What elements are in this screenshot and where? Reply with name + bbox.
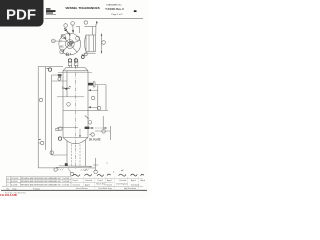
svg-text:VESSEL TOLERANCES: VESSEL TOLERANCES bbox=[65, 6, 99, 10]
leader base C bbox=[68, 168, 71, 173]
leader T2 down bbox=[72, 25, 74, 31]
top nozzle ring R bbox=[74, 59, 77, 62]
skirt left bbox=[66, 141, 68, 166]
head arc left bbox=[85, 35, 87, 52]
platform line bbox=[57, 126, 78, 128]
arrow shell y90 bbox=[88, 89, 91, 91]
balloon low 1 bbox=[41, 141, 44, 144]
svg-text:REVISED AND REISSUED AS STANDA: REVISED AND REISSUED AS STANDARD NO. T-5… bbox=[21, 177, 69, 180]
skirt right bbox=[85, 140, 87, 167]
tick low 1 bbox=[38, 142, 40, 144]
balloon left of bottom head bbox=[58, 137, 61, 140]
bottom tangent bbox=[63, 136, 88, 138]
dim arrow to bottom head bbox=[79, 129, 81, 137]
v-dim x106 bbox=[105, 85, 107, 111]
right nozzle leader bbox=[95, 84, 106, 86]
right L-leader horizontal bbox=[95, 130, 110, 132]
balloon above head L bbox=[66, 53, 69, 56]
svg-text:6-12-86: 6-12-86 bbox=[11, 184, 18, 186]
left dim v3 bbox=[51, 75, 53, 155]
leader to plate balloon bbox=[89, 133, 91, 135]
svg-text:T-5/1001 Rev. 6: T-5/1001 Rev. 6 bbox=[105, 7, 124, 11]
right nozzle stub bbox=[88, 83, 93, 86]
arrowhead NW spoke bbox=[64, 37, 66, 40]
balloon inside vessel bbox=[67, 103, 71, 107]
svg-text:Chief Engineer: Chief Engineer bbox=[116, 183, 128, 185]
balloon lower shell bbox=[88, 121, 92, 125]
leader T1 to circle bbox=[67, 31, 70, 35]
head slope R bbox=[85, 68, 88, 71]
balloon SW of profile bbox=[81, 56, 84, 59]
header rule bbox=[45, 17, 144, 19]
col line b bbox=[9, 176, 11, 186]
leader y107 bbox=[91, 106, 97, 108]
balloon T2 bbox=[71, 22, 75, 26]
svg-text:Prep'd: Prep'd bbox=[73, 180, 78, 182]
svg-text:Checked: Checked bbox=[85, 180, 92, 182]
dim arrow top bbox=[101, 34, 103, 36]
dim arrow bottom bbox=[101, 51, 103, 53]
col line a bbox=[5, 176, 7, 186]
svg-text:Checked: Checked bbox=[73, 184, 80, 186]
platform balloon bbox=[59, 127, 62, 130]
arrowhead T2 bbox=[72, 30, 74, 33]
inner line left bbox=[66, 71, 68, 97]
row line 2 bbox=[6, 182, 71, 184]
tray line bbox=[63, 109, 108, 111]
dot far right 2 bbox=[113, 172, 114, 173]
tick bottom right bbox=[93, 164, 98, 166]
svg-text:Checked: Checked bbox=[119, 180, 126, 182]
connector y155 bbox=[52, 154, 68, 156]
manway stub bbox=[85, 127, 90, 129]
signatures bbox=[73, 174, 145, 176]
diagonal SW of profile bbox=[84, 52, 88, 55]
shell right bbox=[87, 71, 89, 138]
level cluster arc L bbox=[63, 87, 66, 90]
balloon base L bbox=[54, 168, 57, 171]
bottom second line bbox=[87, 52, 96, 54]
svg-text:11-16-94: 11-16-94 bbox=[11, 178, 18, 180]
extension line 1 bbox=[92, 27, 94, 35]
arrowhead SW spoke bbox=[63, 49, 65, 51]
inner vertical 1 bbox=[88, 35, 90, 52]
col line d bbox=[70, 176, 72, 186]
dot far right bbox=[107, 163, 108, 164]
svg-text:REVISED AND REISSUED AS STANDA: REVISED AND REISSUED AS STANDARD NO. T-5… bbox=[21, 180, 69, 183]
mark above table a bbox=[85, 169, 87, 170]
svg-text:2: 2 bbox=[7, 184, 8, 186]
leader mark below plan bbox=[66, 53, 67, 56]
balloon base C bbox=[70, 172, 73, 175]
left nozzle flange bbox=[58, 74, 62, 76]
signature column lines bbox=[84, 177, 139, 191]
head slope L bbox=[63, 68, 66, 71]
svg-text:App'd: App'd bbox=[85, 183, 90, 186]
svg-text:App'd: App'd bbox=[107, 179, 112, 182]
arrow shell y107 bbox=[88, 106, 91, 108]
spoke N bbox=[69, 33, 71, 44]
balloon above profile bbox=[84, 21, 87, 24]
svg-text:No.: No. bbox=[7, 188, 10, 190]
balloon mid bbox=[39, 98, 42, 101]
spoke SW bbox=[62, 44, 70, 52]
small ring left of center bbox=[70, 41, 73, 44]
balloon top bbox=[48, 68, 51, 71]
level blob bbox=[65, 88, 67, 90]
manway arrow bbox=[90, 127, 93, 129]
tick near balloon top bbox=[47, 67, 49, 70]
top nozzle box R bbox=[74, 62, 78, 66]
balloon W of circle bbox=[51, 39, 55, 43]
svg-text:8G: 8G bbox=[60, 45, 63, 49]
dark glyph above head R bbox=[81, 54, 83, 56]
base tick R bbox=[89, 166, 91, 168]
ground hatch left bbox=[58, 169, 64, 171]
extension line 2 bbox=[95, 24, 97, 35]
signature labels row 2 bbox=[73, 183, 140, 186]
ground hatch right bbox=[81, 169, 89, 171]
svg-text:App'd: App'd bbox=[131, 179, 136, 182]
top nozzle stem R bbox=[75, 66, 77, 68]
level cluster arc R bbox=[67, 87, 70, 90]
page background bbox=[0, 0, 149, 198]
balloon right 2 bbox=[97, 106, 101, 110]
svg-text:4: 4 bbox=[7, 178, 8, 180]
arrow tick v1 bbox=[38, 139, 40, 140]
bottom heavy line bbox=[1, 189, 147, 191]
shell left bbox=[62, 71, 64, 138]
inner vertical 2 bbox=[93, 35, 95, 52]
bottom head bbox=[63, 137, 88, 143]
right L-leader vertical bbox=[109, 126, 111, 140]
bottom connector bbox=[38, 167, 59, 169]
dim connector line bbox=[85, 26, 97, 28]
mark above table b bbox=[121, 169, 123, 172]
balloon base R bbox=[94, 170, 97, 173]
head seam bbox=[63, 70, 88, 72]
center dot bbox=[69, 44, 70, 45]
leader y90 bbox=[91, 89, 98, 91]
arrowhead N spoke bbox=[69, 34, 70, 36]
dim line right bbox=[101, 34, 103, 54]
svg-text:Mgr. Standards: Mgr. Standards bbox=[124, 187, 136, 190]
svg-text:Page 1 of 2: Page 1 of 2 bbox=[111, 14, 123, 16]
base bottom bbox=[56, 166, 95, 169]
svg-text:2R. PLATE: 2R. PLATE bbox=[89, 138, 101, 141]
company logo block bbox=[46, 8, 56, 15]
center nozzle ring bbox=[68, 42, 72, 46]
svg-text:STANDARD No.: STANDARD No. bbox=[106, 3, 122, 6]
svg-text:Mech. Eng.: Mech. Eng. bbox=[97, 183, 107, 185]
balloon above head R bbox=[84, 53, 87, 56]
base top bbox=[59, 165, 92, 167]
level dot bbox=[62, 87, 63, 88]
svg-text:3: 3 bbox=[7, 181, 8, 183]
table top bbox=[6, 175, 71, 177]
signature labels row 1 bbox=[73, 179, 146, 182]
balloon low 2 bbox=[50, 151, 53, 154]
left nozzle pair bbox=[58, 76, 61, 77]
top connector bbox=[38, 66, 63, 68]
svg-text:8-24-90: 8-24-90 bbox=[11, 181, 18, 183]
v-dim x103 bbox=[102, 116, 104, 129]
spoke NE bbox=[70, 40, 81, 44]
anchor detail left bbox=[65, 163, 68, 166]
top nozzle ring L bbox=[68, 59, 71, 62]
internal line y97 bbox=[57, 96, 84, 98]
left dim v1 bbox=[37, 67, 39, 168]
skirt hidden line R bbox=[79, 144, 81, 166]
top nozzle box L bbox=[68, 62, 72, 66]
skirt hidden line L bbox=[71, 144, 73, 166]
leader marks below T1 bbox=[64, 29, 67, 31]
standard number block bbox=[105, 3, 124, 16]
v-dim x97.8 bbox=[97, 85, 99, 110]
leader arrow right bbox=[105, 127, 108, 129]
centerline bbox=[75, 58, 77, 170]
rim nozzle SW bbox=[60, 50, 64, 54]
middle circle bbox=[65, 40, 74, 49]
platform bracket bbox=[56, 128, 59, 130]
manway dashed leader bbox=[93, 127, 105, 129]
diagonal lower right shell bbox=[85, 116, 89, 120]
center mark bbox=[75, 146, 76, 147]
header line bbox=[2, 185, 143, 187]
svg-text:Fm 104-A 12B: Fm 104-A 12B bbox=[0, 194, 17, 197]
svg-text:Vessel Section: Vessel Section bbox=[76, 187, 88, 190]
svg-text:App'd: App'd bbox=[141, 179, 146, 182]
balloon T1 bbox=[64, 24, 68, 28]
stub y75 bbox=[52, 74, 59, 76]
signature rule lines bbox=[71, 178, 143, 182]
head plan circle bbox=[59, 33, 81, 55]
right nozzle flange bbox=[93, 82, 95, 87]
profile box bbox=[86, 35, 96, 52]
v-dim bottom right bbox=[95, 158, 97, 170]
svg-text:PDF: PDF bbox=[6, 6, 36, 23]
spoke NW bbox=[61, 35, 70, 44]
svg-text:REVISED AND REISSUED AS STANDA: REVISED AND REISSUED AS STANDARD NO. T-5… bbox=[21, 183, 69, 186]
row line 1 bbox=[6, 178, 71, 180]
PDF badge bbox=[0, 0, 44, 27]
small dark mark near right edge bbox=[134, 10, 137, 12]
left nozzle ring bbox=[58, 77, 61, 80]
top nozzle stem L bbox=[69, 66, 71, 68]
rim nozzle NE bbox=[76, 36, 80, 40]
rim nozzle NW bbox=[61, 35, 65, 39]
svg-text:Vessel: Vessel bbox=[107, 184, 113, 186]
svg-text:Date: Date bbox=[13, 187, 17, 190]
svg-text:Purpose: Purpose bbox=[33, 187, 40, 190]
svg-text:Standards: Standards bbox=[131, 183, 139, 186]
left dim v2 bbox=[45, 67, 47, 151]
tangent line bbox=[58, 72, 92, 74]
balloon near plate bbox=[91, 133, 94, 136]
balloon x103 bbox=[102, 130, 106, 134]
tick above head bbox=[69, 53, 71, 55]
balloon right 1 bbox=[91, 96, 95, 100]
svg-text:Prep'd: Prep'd bbox=[98, 180, 103, 182]
balloon right dim bbox=[102, 41, 106, 45]
col line c bbox=[19, 176, 21, 186]
left leader y81 bbox=[52, 80, 67, 82]
spoke SE bbox=[70, 44, 77, 52]
leader W bbox=[52, 40, 67, 42]
dark glyph above profile bbox=[96, 21, 98, 24]
level tick bbox=[69, 86, 70, 87]
bracket right of balloons bbox=[76, 27, 80, 34]
head top bbox=[66, 67, 85, 69]
